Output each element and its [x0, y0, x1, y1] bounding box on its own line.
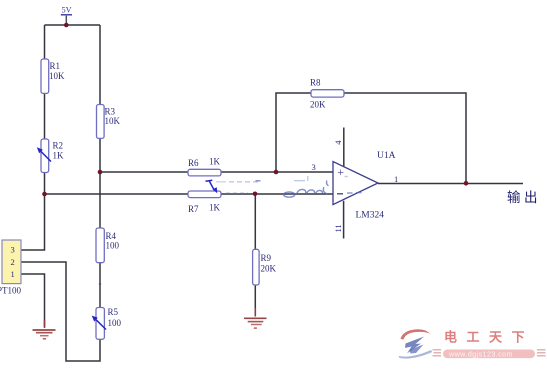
wire: plus wire R6 to op-amp input: [221, 171, 333, 173]
svg-text:R4: R4: [106, 231, 117, 241]
wire: left column top segment (rail to R1): [44, 25, 46, 60]
svg-text:R7: R7: [188, 204, 199, 214]
wire: feedback left leg up from plus node: [276, 93, 311, 172]
svg-text:1K: 1K: [209, 157, 221, 167]
wire: R3 bottom to plus-node: [99, 138, 101, 172]
wire: feedback right leg to output: [344, 93, 466, 183]
svg-text:10K: 10K: [49, 71, 65, 81]
junction dot at minus node (left column): [42, 192, 47, 197]
junction dot at feedback tap on plus wire: [274, 170, 279, 175]
resistor R9: [253, 249, 277, 285]
svg-text:3: 3: [312, 162, 316, 172]
watermark banner www.dgjs123.com: [433, 349, 546, 358]
svg-text:10K: 10K: [105, 116, 121, 126]
svg-text:www.dgjs123.com: www.dgjs123.com: [448, 349, 513, 358]
wire: minus wire left of R7: [45, 193, 189, 195]
power 5V supply symbol: [61, 6, 72, 25]
svg-text:3: 3: [11, 245, 15, 255]
svg-text:5V: 5V: [62, 6, 72, 15]
wiper arrow at R7: [206, 180, 218, 193]
resistor R7: [188, 191, 221, 214]
svg-text:+: +: [337, 165, 344, 179]
svg-text:1K: 1K: [53, 151, 65, 161]
resistor R4: [96, 228, 120, 263]
wire: right column rail to R3: [99, 25, 101, 105]
resistor R2 (adjustable): [37, 139, 64, 173]
resistor R1: [41, 59, 65, 93]
ground symbol middle (R9): [244, 308, 267, 328]
watermark ghost squiggles on minus wire: [256, 181, 329, 198]
watermark ghost dashes inside op-amp: [345, 177, 362, 194]
svg-text:R3: R3: [105, 107, 116, 117]
wire: output wire: [378, 183, 523, 185]
svg-text:1: 1: [394, 174, 398, 184]
junction dot at plus node (R3 bottom): [98, 170, 103, 175]
wire: R5 bottom loop to PT100 pin2: [21, 262, 100, 361]
wire: plus-node down to R4: [99, 172, 101, 228]
svg-text:R5: R5: [108, 307, 119, 317]
svg-text:电工天下: 电工天下: [444, 330, 534, 345]
wire: R9 bottom to ground: [254, 285, 256, 316]
svg-text:PT100: PT100: [0, 286, 22, 296]
svg-text:R2: R2: [53, 141, 64, 151]
resistor R6: [188, 157, 221, 176]
svg-text:100: 100: [106, 241, 120, 251]
wire: PT100 pin1 to ground: [21, 274, 45, 327]
watermark ghost dashes on plus wire area: [216, 176, 308, 193]
svg-text:11: 11: [333, 224, 343, 232]
svg-text:1K: 1K: [209, 203, 221, 213]
svg-text:R9: R9: [261, 253, 272, 263]
svg-text:LM324: LM324: [356, 211, 385, 221]
junction dot at output feedback node: [464, 181, 469, 186]
svg-text:U1A: U1A: [377, 151, 396, 161]
junction dot at 5V rail: [64, 23, 69, 28]
resistor R8: [310, 78, 344, 110]
watermark logo mark (bottom right): [399, 329, 433, 358]
wire: top 5V rail: [45, 24, 101, 26]
junction tick between R4 and R5: [99, 283, 101, 285]
wire: left column R1 to R2: [44, 93, 46, 139]
svg-text:1: 1: [11, 269, 15, 279]
wire: left column R2 down to PT100 pin3: [21, 173, 45, 251]
wire: R4 to R5: [99, 263, 101, 308]
wire: R9 top leg: [254, 194, 256, 249]
svg-text:20K: 20K: [310, 100, 326, 110]
svg-text:R1: R1: [50, 61, 61, 71]
svg-text:100: 100: [108, 318, 122, 328]
resistor R3: [97, 105, 121, 139]
svg-text:20K: 20K: [261, 264, 277, 274]
PT100 connector: [0, 240, 22, 296]
svg-text:2: 2: [11, 257, 15, 267]
junction dot at R9 tap on minus wire: [253, 192, 258, 197]
op-amp U1A: [312, 128, 399, 239]
wire: minus wire R7 to op-amp input: [221, 193, 333, 195]
svg-text:输出: 输出: [507, 190, 541, 205]
ground symbol left (PT100 pin1): [33, 320, 56, 339]
wire: plus wire left of R6: [100, 171, 188, 173]
resistor R5 (adjustable): [92, 307, 122, 339]
svg-text:R8: R8: [310, 78, 321, 88]
svg-text:R6: R6: [188, 158, 199, 168]
